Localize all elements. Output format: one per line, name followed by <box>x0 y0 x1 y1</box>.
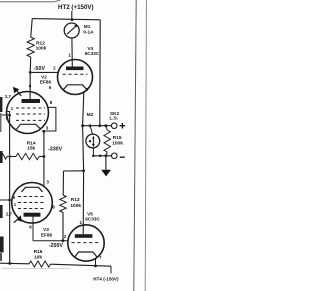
svg-text:R15: R15 <box>113 135 122 141</box>
svg-text:EF86: EF86 <box>41 233 53 238</box>
junction V5 cathode <box>94 265 97 268</box>
wire SK2 bottom row <box>93 155 111 157</box>
svg-text:L.S.: L.S. <box>109 116 118 121</box>
svg-text:100k: 100k <box>70 203 81 209</box>
svg-text:R14: R14 <box>27 140 36 146</box>
junction output node top <box>81 124 84 127</box>
wire vertical A mid <box>83 126 84 171</box>
wire bottom row right <box>51 264 112 266</box>
wire vertical A low <box>82 171 84 235</box>
top edge line (scan artifact) <box>0 0 60 2</box>
wire R12 to -50V node <box>29 57 32 72</box>
shadow line <box>2 267 70 269</box>
svg-text:R13: R13 <box>71 197 80 203</box>
wire R14 left lead <box>7 156 16 158</box>
svg-text:0-1A: 0-1A <box>83 29 94 35</box>
wire left rail to R12 <box>31 19 32 37</box>
svg-text:-200V: -200V <box>49 243 64 249</box>
junction R15 top <box>104 124 107 127</box>
svg-text:6C33C: 6C33C <box>85 51 100 56</box>
wire V2 pin9 lead <box>0 112 10 116</box>
svg-text:V3: V3 <box>43 227 49 232</box>
wire ground shaft <box>105 156 107 170</box>
resistor R16 <box>29 261 51 267</box>
meter M1 <box>64 23 94 38</box>
wire V3 pin6 stub <box>32 217 34 241</box>
wire rail to V2 top <box>29 72 31 99</box>
wire SK2 top row <box>83 125 113 127</box>
wire V4 grid wire <box>30 71 58 73</box>
junction left rail R14 <box>9 155 11 157</box>
svg-text:EF86: EF86 <box>40 80 52 85</box>
tube V2 EF86 <box>5 74 53 133</box>
junction R14/-330V <box>43 155 46 158</box>
wire right rail (vertical B) <box>99 20 101 126</box>
junction M2 top <box>89 124 92 127</box>
resistor R12 <box>27 37 34 57</box>
wire -330V drop <box>43 131 45 187</box>
page border line 1 (scan edge) <box>134 0 136 291</box>
wire R13 top lead <box>62 171 64 195</box>
svg-text:-50V: -50V <box>34 66 46 72</box>
svg-text:6C33C: 6C33C <box>85 217 100 222</box>
wire HT4 stub <box>110 266 112 273</box>
junction ground node <box>105 154 108 157</box>
wire M2 top lead <box>90 126 93 135</box>
svg-text:100k: 100k <box>36 45 47 51</box>
wire M1 to V4 plate <box>71 38 73 67</box>
resistor R15 <box>104 130 110 152</box>
junction R13/grid <box>62 239 65 242</box>
svg-text:10k: 10k <box>34 254 42 260</box>
wire V2 pin8-pin3 link <box>42 107 56 131</box>
wire R15 bottom lead <box>106 152 107 156</box>
junction vertical A / R13 <box>82 169 85 172</box>
resistor R13 <box>60 195 66 213</box>
svg-text:HT4 (-150V): HT4 (-150V) <box>93 277 119 282</box>
svg-text:M1: M1 <box>84 24 91 30</box>
tube V3 EF86 <box>6 180 55 238</box>
connector SK2 terminal - <box>112 153 118 159</box>
svg-text:2,7: 2,7 <box>6 211 13 216</box>
junction left rail V3 <box>8 199 11 202</box>
tube V4 6C33C <box>49 46 100 95</box>
tube V5 6C33C <box>64 211 104 261</box>
junction V2 pin3 node <box>43 130 46 133</box>
junction left rail bottom <box>8 262 11 265</box>
junction row mid <box>99 155 102 158</box>
wire HT2 stub <box>71 11 73 19</box>
junction -50V node <box>29 71 32 74</box>
junction M2 bottom <box>92 155 95 158</box>
svg-text:V5: V5 <box>87 211 93 216</box>
wire left rail <box>9 115 11 263</box>
svg-text:M2: M2 <box>87 112 94 118</box>
svg-text:15k: 15k <box>27 146 35 152</box>
resistor R14 <box>16 153 39 159</box>
wire V5 pin7 stub <box>95 259 97 266</box>
wire R14 right lead <box>39 156 44 158</box>
scan artifact marks left edge <box>0 97 4 261</box>
junction B corner <box>98 124 101 127</box>
wire V4 cathode drop (vertical A) <box>83 92 84 125</box>
wire V3 pin9 lead <box>0 199 11 201</box>
wire R13 bottom lead <box>62 213 64 241</box>
wire top rail <box>32 19 100 20</box>
svg-text:2,7: 2,7 <box>5 94 12 99</box>
resistor R14 partial (off-page) <box>0 154 7 159</box>
page border line 2 (scan edge) <box>145 0 146 291</box>
svg-text:100k: 100k <box>112 141 123 147</box>
wire R13 top row <box>64 170 84 172</box>
svg-text:HT2 (+150V): HT2 (+150V) <box>58 4 94 11</box>
wire R15 top lead <box>106 126 107 130</box>
wire V5 grid row <box>33 240 68 242</box>
wire M2 bottom lead <box>92 148 94 156</box>
junction top rail <box>71 18 74 21</box>
connector SK2 terminal + <box>111 123 117 129</box>
svg-text:R16: R16 <box>34 249 43 255</box>
svg-text:-330V: -330V <box>48 147 63 153</box>
meter M2 <box>86 112 100 148</box>
wire bottom row left <box>0 262 29 265</box>
junction V2 pin9 <box>8 114 11 117</box>
